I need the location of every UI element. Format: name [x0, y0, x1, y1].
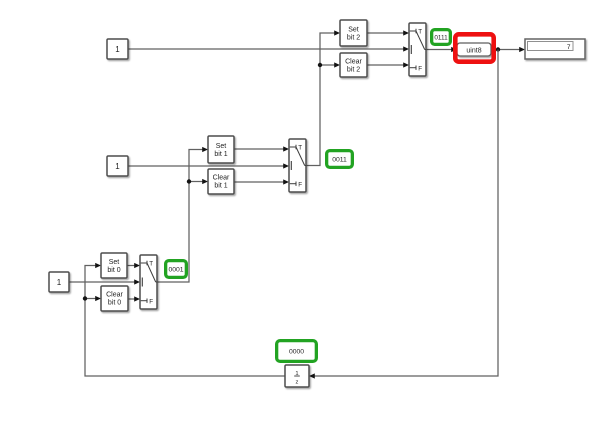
- svg-text:0000: 0000: [289, 349, 304, 356]
- svg-text:T: T: [149, 261, 153, 268]
- svg-text:Set: Set: [109, 259, 120, 266]
- constant block 1 (top): [107, 39, 128, 59]
- annotation 0011 (green): [327, 151, 353, 168]
- wire: bottom constant 1 to switch0 control input: [69, 279, 140, 284]
- svg-text:Clear: Clear: [213, 175, 230, 182]
- svg-text:bit 0: bit 0: [107, 267, 120, 274]
- junction after uint8: [496, 47, 500, 51]
- svg-text:F: F: [298, 181, 302, 188]
- svg-text:0001: 0001: [168, 267, 183, 274]
- svg-text:bit 0: bit 0: [108, 300, 121, 307]
- highlight box around uint8 (red): [455, 34, 493, 61]
- svg-text:0111: 0111: [434, 35, 448, 42]
- unit delay block 1/z: [285, 365, 309, 387]
- svg-text:T: T: [418, 29, 422, 36]
- annotation 0001 (green): [166, 261, 187, 278]
- svg-text:F: F: [418, 65, 422, 72]
- wire: switch2 output to uint8 input: [426, 47, 457, 52]
- wire: Clear bit 0 output to switch0 F input: [128, 296, 140, 301]
- svg-text:Clear: Clear: [106, 292, 123, 299]
- svg-text:1: 1: [115, 45, 120, 54]
- svg-text:T: T: [298, 145, 302, 152]
- wire: feedback from junction down and left to unit delay input: [309, 50, 498, 379]
- block Set bit 1: [208, 136, 234, 163]
- svg-text:Set: Set: [216, 143, 227, 150]
- block Clear bit 1: [208, 169, 234, 194]
- wire: Set bit 2 output to switch2 T input: [367, 30, 409, 35]
- wire: branch to Clear bit 0: [85, 296, 101, 301]
- svg-text:0011: 0011: [332, 157, 347, 164]
- svg-text:Clear: Clear: [345, 59, 362, 66]
- svg-text:bit 1: bit 1: [214, 151, 227, 158]
- wire: Set bit 0 output to switch0 T input: [127, 263, 140, 268]
- switch block (bit 2): [409, 23, 426, 76]
- wire: branch to Clear bit 2: [320, 62, 340, 67]
- wire: stage1 output up to stage2 inputs (vertical riser x=320): [306, 30, 340, 165]
- block Clear bit 2: [340, 53, 367, 77]
- switch block (bit 0): [140, 255, 157, 309]
- wire: Set bit 1 output to switch1 T input: [234, 146, 289, 151]
- junction on riser at Clear bit 1 input: [187, 179, 191, 183]
- constant block 1 (middle): [107, 156, 128, 176]
- junction on feedback riser at Clear bit 0 input: [83, 296, 87, 300]
- svg-text:1: 1: [115, 162, 120, 171]
- wire: Clear bit 1 output to switch1 F input: [234, 179, 289, 184]
- display block showing 7: [525, 39, 585, 59]
- svg-text:bit 1: bit 1: [214, 183, 227, 190]
- block Set bit 0: [101, 253, 127, 278]
- wire: switch0 output up to Set bit 1 input (riser x=189): [157, 147, 208, 282]
- wire: uint8 output to Display with feedback branch: [491, 47, 525, 52]
- data type conversion block uint8: [457, 43, 491, 56]
- svg-text:Set: Set: [348, 27, 359, 34]
- svg-text:F: F: [149, 298, 153, 305]
- svg-text:7: 7: [567, 44, 571, 51]
- constant block 1 (bottom): [49, 272, 69, 292]
- svg-text:uint8: uint8: [466, 48, 481, 55]
- wire: unit delay output left and up to Set bit 0 input: [85, 263, 285, 376]
- switch block (bit 1): [289, 139, 306, 192]
- wire: mid constant 1 to switch1 control input: [128, 163, 289, 168]
- svg-text:bit 2: bit 2: [347, 35, 360, 42]
- svg-text:bit 2: bit 2: [347, 67, 360, 74]
- junction at riser x=320 / Clear bit 2 input: [318, 63, 322, 67]
- svg-text:z: z: [296, 380, 299, 386]
- svg-text:1: 1: [57, 278, 62, 287]
- wire: top constant 1 to switch2 control input: [128, 46, 409, 51]
- block Set bit 2: [340, 20, 367, 46]
- block Clear bit 0: [101, 286, 128, 311]
- wire: Clear bit 2 output to switch2 F input: [367, 62, 409, 67]
- annotation 0000 (green): [277, 341, 317, 362]
- wire: branch to Clear bit 1: [189, 179, 208, 184]
- annotation 0111 (green): [432, 30, 451, 45]
